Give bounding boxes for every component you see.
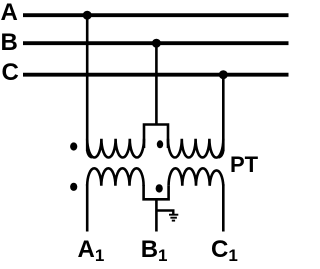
wire: secondary junction bar between the two secondaries [144,185,169,199]
wire: dropper from phase C to transformer 2 primary [222,75,225,151]
junction node on phase B [152,39,161,48]
PT primary winding right (transformer 2) [168,139,223,158]
bus line A [23,13,289,17]
bus line B [23,41,289,45]
PT primary winding left (transformer 1) [87,139,144,158]
wire: output lead A1 from transformer 1 secondary [86,184,89,232]
ground symbol [169,215,178,221]
svg-text:A1: A1 [78,236,105,265]
bus line C [23,73,289,77]
wire: output lead C1 from transformer 2 secondary [222,184,225,232]
polarity dot primary transformer 2 [157,140,163,148]
svg-text:B1: B1 [141,236,168,265]
svg-text:B: B [1,29,18,56]
svg-text:C: C [2,59,19,86]
wire: curved join of phase A dropper into left primary [87,150,92,157]
PT secondary winding left (transformer 1) [87,168,143,186]
polarity dot secondary transformer 1 [70,183,77,191]
junction node on phase A [83,11,92,20]
junction node on phase C [219,70,228,79]
svg-text:C1: C1 [211,236,238,265]
svg-text:PT: PT [230,152,259,177]
wire: output lead B1 [155,199,158,231]
svg-text:A: A [1,0,18,26]
polarity dot primary transformer 1 [70,142,77,150]
wire: dropper from phase A to transformer 1 primary [86,15,89,151]
wire: dropper from phase B to primary junction bracket [155,43,158,124]
wire: ground stub from B1 lead [156,211,173,215]
wire: curved join of phase C dropper into right primary [219,150,224,157]
PT secondary winding right (transformer 2) [169,168,224,186]
polarity dot secondary transformer 2 [156,184,163,192]
wire: primary junction bracket [144,125,168,149]
